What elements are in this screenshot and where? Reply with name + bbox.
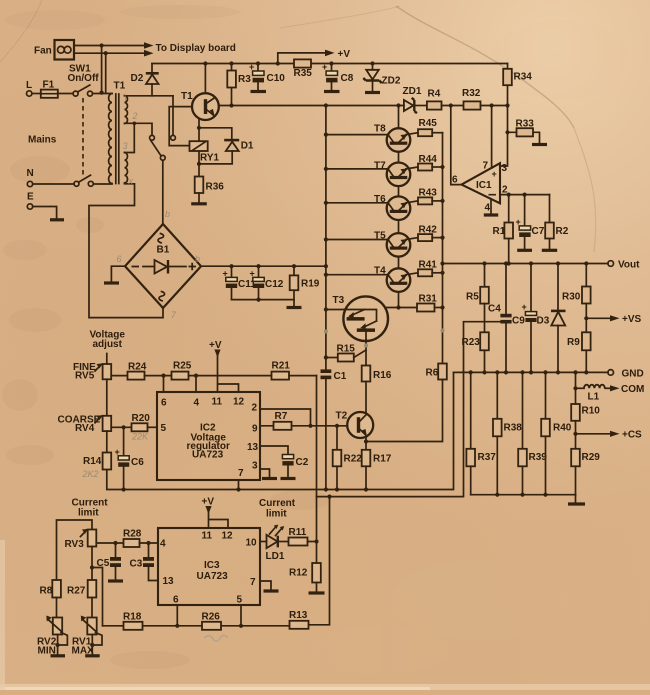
wire IC3 pin5 stub — [239, 605, 243, 628]
wire contact common to bridge — [162, 160, 164, 224]
svg-text:N: N — [27, 168, 34, 179]
wire IC2 pin7 stub — [238, 480, 240, 490]
svg-text:R9: R9 — [567, 337, 580, 348]
svg-text:10: 10 — [246, 538, 258, 549]
svg-text:9: 9 — [252, 424, 258, 435]
svg-text:E: E — [27, 192, 34, 203]
node +CS — [576, 430, 643, 441]
svg-text:+V: +V — [209, 340, 222, 351]
svg-text:4: 4 — [160, 539, 166, 550]
resistor R35 — [294, 59, 313, 79]
wire R21 down branch — [316, 376, 318, 563]
wire transformer bottom to bridge — [89, 184, 163, 318]
svg-text:Vout: Vout — [618, 260, 640, 271]
capacitor C1 — [321, 330, 347, 490]
svg-text:R31: R31 — [419, 294, 438, 305]
resistor R44 — [418, 154, 445, 171]
op-amp IC1 — [452, 106, 508, 214]
resistor R7 on pin9 line — [260, 411, 348, 430]
svg-text:2: 2 — [252, 403, 258, 414]
capacitor C3 — [130, 543, 159, 581]
svg-text:D2: D2 — [131, 73, 144, 84]
svg-text:R35: R35 — [294, 68, 313, 79]
svg-text:R8: R8 — [40, 586, 53, 597]
pot RV4 COARSE — [58, 379, 112, 434]
svg-text:ZD2: ZD2 — [382, 76, 401, 87]
wire T2 emitter — [364, 438, 368, 450]
svg-text:R12: R12 — [289, 568, 308, 579]
svg-text:R10: R10 — [582, 406, 601, 417]
svg-text:+V: +V — [202, 497, 215, 508]
resistor R25 — [172, 361, 272, 380]
svg-text:C9: C9 — [512, 316, 525, 327]
svg-text:C4: C4 — [488, 304, 501, 315]
transformer T1 — [109, 81, 128, 184]
node +VS — [586, 314, 641, 325]
zener ZD1 — [403, 86, 427, 113]
svg-text:22K: 22K — [131, 432, 149, 442]
resistor R18 — [123, 612, 143, 630]
svg-text:C10: C10 — [267, 73, 286, 84]
resistor R2 — [542, 195, 569, 251]
svg-text:R39: R39 — [529, 452, 548, 463]
svg-text:L: L — [26, 80, 32, 91]
dashed link SW1 ganged — [82, 98, 84, 176]
node +V IC3 — [202, 497, 229, 529]
svg-text:R14: R14 — [83, 456, 102, 467]
svg-text:R24: R24 — [128, 362, 147, 373]
resistor R23 — [462, 304, 489, 375]
svg-text:MIN: MIN — [38, 646, 56, 657]
wire bridge output — [201, 264, 328, 268]
wire IC2 pin2 — [260, 409, 313, 428]
wire secondary tap mid — [125, 123, 153, 135]
resistor R4 — [427, 89, 464, 110]
pot RV3 — [57, 520, 97, 580]
svg-text:COM: COM — [621, 384, 644, 395]
transistor T6 — [374, 194, 418, 220]
wire SW1 to transformer — [93, 93, 113, 95]
svg-text:Mains: Mains — [28, 135, 57, 146]
ground IC3 pin7 — [260, 581, 279, 591]
svg-text:11: 11 — [212, 397, 223, 408]
svg-text:R43: R43 — [419, 188, 438, 199]
svg-text:R38: R38 — [504, 423, 523, 434]
svg-text:6: 6 — [161, 398, 167, 409]
capacitor C11 — [223, 266, 257, 299]
svg-text:MAX: MAX — [72, 646, 95, 657]
svg-text:+: + — [322, 62, 327, 72]
svg-text:R30: R30 — [562, 292, 581, 303]
svg-text:T1: T1 — [114, 81, 126, 92]
resistor R38 — [493, 372, 522, 494]
ground R19 — [287, 306, 302, 309]
svg-text:4: 4 — [485, 203, 491, 214]
ground bridge left — [104, 266, 125, 283]
svg-text:12: 12 — [222, 531, 234, 542]
resistor R32 — [462, 88, 510, 110]
svg-text:C5: C5 — [97, 558, 110, 569]
wire secondary tap top — [125, 95, 174, 97]
svg-text:Fan: Fan — [34, 46, 52, 57]
wire E to ground — [33, 207, 57, 219]
IC3 regulator — [158, 528, 260, 606]
svg-text:To Display board: To Display board — [156, 43, 236, 54]
node +V arrow — [278, 49, 351, 64]
svg-text:RV3: RV3 — [65, 539, 85, 550]
resistor R19 — [290, 266, 320, 306]
resistor R33 — [505, 119, 547, 145]
wire T1 base — [169, 107, 193, 146]
transistor T7 — [374, 161, 418, 187]
svg-text:adjust: adjust — [93, 339, 123, 350]
switch SW1 — [58, 64, 99, 97]
IC2 regulator — [157, 392, 260, 480]
wire RV3 to R28 — [96, 541, 123, 545]
svg-text:IC3: IC3 — [204, 560, 220, 571]
resistor R9 — [567, 332, 591, 374]
transistor T4 — [374, 266, 418, 292]
wire base T5 — [324, 237, 389, 241]
svg-text:4: 4 — [194, 398, 200, 409]
svg-text:R11: R11 — [289, 527, 307, 538]
svg-text:limit: limit — [266, 509, 287, 520]
svg-text:F1: F1 — [43, 80, 55, 91]
bridge rectifier B1 — [125, 224, 201, 308]
svg-text:+: + — [249, 62, 254, 72]
capacitor C2 on pin13 — [260, 446, 309, 479]
resistor R1 — [493, 195, 514, 266]
svg-text:b: b — [195, 254, 200, 264]
ground IC1 pin4 — [484, 200, 498, 216]
wire IC2 pin6 stub — [163, 376, 165, 392]
wire RV4 to R20 — [111, 425, 131, 429]
svg-text:R17: R17 — [373, 454, 392, 465]
wire L to F1 — [32, 93, 41, 95]
svg-text:x: x — [128, 176, 134, 186]
svg-text:7: 7 — [250, 577, 256, 588]
svg-text:R32: R32 — [462, 88, 481, 99]
resistor R11 — [289, 527, 319, 546]
resistor R15 — [324, 344, 366, 362]
ground IC2 pin3 — [260, 469, 277, 479]
wire C11 C12 R19 bottoms — [232, 298, 295, 302]
capacitor C7 — [516, 195, 545, 251]
diode D2 — [131, 64, 159, 96]
resistor R17 — [362, 450, 392, 492]
svg-text:13: 13 — [247, 442, 259, 453]
svg-text:T1: T1 — [181, 91, 193, 102]
LED LD1 — [260, 525, 289, 562]
inductor L1 — [573, 384, 644, 403]
resistor R45 — [418, 118, 443, 136]
svg-text:R19: R19 — [301, 279, 320, 290]
svg-text:R7: R7 — [275, 411, 288, 422]
resistor R5 — [466, 264, 489, 304]
svg-text:C6: C6 — [131, 457, 144, 468]
wire base T8 — [324, 133, 389, 137]
svg-text:R22: R22 — [344, 454, 363, 465]
terminal E — [27, 192, 34, 210]
svg-text:+: + — [516, 217, 521, 227]
terminal Vout — [608, 260, 640, 271]
svg-text:7: 7 — [238, 468, 244, 479]
pot RV1 MAX — [72, 616, 103, 657]
resistor R30 — [562, 264, 591, 333]
wire base bus left — [324, 103, 328, 369]
wire T1 collector to top bus — [204, 64, 206, 94]
resistor R24 — [128, 362, 172, 380]
svg-text:R21: R21 — [272, 361, 291, 372]
wire T3 emitter to R16 — [364, 340, 368, 366]
wire return line upper — [107, 372, 454, 491]
wire IC1 pin2 line — [500, 193, 550, 197]
svg-text:GND: GND — [622, 369, 644, 380]
relay coil RY1 — [190, 141, 220, 163]
wire base T4 — [324, 273, 389, 277]
svg-text:R2: R2 — [556, 226, 569, 237]
relay changeover contact — [150, 135, 176, 160]
svg-text:12: 12 — [233, 397, 245, 408]
svg-text:L1: L1 — [588, 392, 600, 403]
svg-text:b: b — [165, 209, 170, 219]
node +V IC2 — [209, 340, 239, 392]
svg-text:+: + — [492, 169, 497, 179]
svg-text:R33: R33 — [516, 119, 535, 130]
wire IC2 pin4 stub — [195, 376, 197, 392]
svg-text:RV4: RV4 — [75, 423, 95, 434]
svg-text:R29: R29 — [582, 452, 601, 463]
wire GND bus — [454, 370, 609, 374]
ground bottom rail — [568, 495, 585, 504]
svg-text:D1: D1 — [241, 141, 254, 152]
svg-text:LD1: LD1 — [266, 551, 285, 562]
wire relay to R36 — [197, 151, 201, 177]
svg-text:R18: R18 — [123, 612, 142, 623]
resistor R43 — [418, 188, 445, 205]
wire bottom rail right — [471, 493, 576, 497]
svg-text:7: 7 — [483, 161, 489, 172]
svg-text:6: 6 — [117, 254, 122, 264]
svg-text:R5: R5 — [466, 292, 479, 303]
capacitor C4 — [488, 264, 512, 375]
svg-text:T4: T4 — [374, 266, 386, 277]
svg-text:3: 3 — [123, 141, 128, 151]
svg-text:R28: R28 — [123, 529, 142, 540]
resistor R21 — [272, 361, 317, 380]
wire Vout bus — [443, 261, 609, 265]
resistor R39 — [518, 372, 547, 494]
resistor R29 — [571, 449, 600, 495]
svg-text:C1: C1 — [334, 371, 347, 382]
svg-text:T2: T2 — [336, 411, 348, 422]
resistor R26 — [202, 612, 222, 630]
wire array right bus — [440, 133, 444, 364]
svg-text:R44: R44 — [419, 154, 438, 165]
svg-text:RY1: RY1 — [200, 153, 220, 164]
resistor R40 — [541, 372, 572, 494]
svg-text:T8: T8 — [374, 124, 386, 135]
resistor R12 — [289, 563, 325, 593]
resistor R22 — [333, 424, 363, 492]
capacitor C6 — [115, 427, 145, 489]
svg-text:IC1: IC1 — [476, 180, 492, 191]
svg-text:T5: T5 — [374, 231, 386, 242]
wire fan to display board lower — [74, 43, 236, 57]
svg-text:2: 2 — [132, 111, 138, 121]
resistor R16 — [362, 366, 392, 413]
svg-text:limit: limit — [78, 508, 99, 519]
svg-text:+: + — [250, 269, 255, 279]
resistor R36 — [195, 177, 225, 194]
svg-text:13: 13 — [163, 576, 175, 587]
svg-text:R27: R27 — [67, 586, 86, 597]
svg-text:R13: R13 — [289, 610, 308, 621]
svg-text:R40: R40 — [553, 423, 572, 434]
svg-text:R20: R20 — [132, 413, 151, 424]
terminal N — [27, 168, 34, 187]
svg-text:+V: +V — [338, 49, 351, 60]
svg-text:R6: R6 — [426, 368, 439, 379]
wire fan tap 1 — [100, 43, 104, 94]
transistor T8 — [374, 124, 418, 152]
svg-text:T7: T7 — [374, 161, 386, 172]
terminal L — [26, 80, 32, 96]
wire fan to display board upper — [74, 42, 153, 49]
svg-text:C7: C7 — [532, 226, 545, 237]
svg-text:C12: C12 — [265, 279, 284, 290]
wire base T7 — [324, 167, 389, 171]
resistor R42 — [418, 225, 445, 242]
svg-text:+CS: +CS — [622, 430, 642, 441]
svg-text:R42: R42 — [419, 225, 438, 236]
svg-text:5: 5 — [161, 423, 167, 434]
ground E — [50, 218, 64, 221]
svg-text:R26: R26 — [202, 612, 221, 623]
resistor R3 — [227, 64, 251, 108]
svg-text:+: + — [115, 447, 120, 457]
transistor T5 — [374, 231, 418, 257]
svg-text:On/Off: On/Off — [68, 73, 100, 84]
terminal GND — [608, 369, 644, 380]
svg-text:R16: R16 — [373, 370, 392, 381]
svg-text:R37: R37 — [478, 452, 497, 463]
wire base T6 — [324, 201, 389, 205]
top supply bus — [152, 61, 508, 65]
svg-text:T3: T3 — [333, 295, 345, 306]
capacitor C10 — [249, 62, 285, 92]
svg-text:3: 3 — [252, 461, 258, 472]
svg-text:R4: R4 — [428, 89, 441, 100]
svg-text:R41: R41 — [419, 260, 438, 271]
resistor R31 — [417, 294, 443, 312]
transistor T3 — [324, 295, 388, 341]
capacitor C9 — [512, 264, 537, 375]
svg-text:6: 6 — [173, 595, 179, 606]
zener ZD2 — [363, 64, 401, 93]
svg-text:+: + — [223, 269, 228, 279]
wire tap to relay contact right — [172, 96, 174, 135]
pot RV5 FINE — [73, 354, 111, 382]
resistor R28 — [123, 529, 158, 548]
diode D1 — [199, 140, 254, 164]
svg-text:T6: T6 — [374, 194, 386, 205]
pencil marks — [117, 93, 201, 320]
capacitor C5 — [97, 543, 124, 581]
resistor R10 — [571, 372, 600, 448]
svg-text:2K2: 2K2 — [82, 469, 99, 479]
svg-text:UA723: UA723 — [197, 571, 229, 582]
svg-text:D3: D3 — [537, 316, 550, 327]
svg-text:R15: R15 — [337, 344, 356, 355]
wire IC3 pin6 stub — [175, 605, 179, 628]
wire bottom row — [103, 497, 330, 626]
wire tap link — [125, 123, 135, 152]
resistor R20 — [131, 413, 157, 442]
svg-text:ZD1: ZD1 — [403, 86, 422, 97]
switch N pole — [33, 175, 112, 186]
svg-text:R1: R1 — [493, 226, 506, 237]
transistor T1 — [181, 91, 219, 120]
resistor R41 — [418, 260, 445, 277]
wire T3 collector line — [385, 305, 417, 309]
svg-text:R34: R34 — [514, 72, 533, 83]
ground R36 — [191, 193, 207, 204]
svg-text:11: 11 — [202, 531, 213, 542]
svg-text:R25: R25 — [173, 361, 192, 372]
resistor R34 — [503, 64, 532, 106]
pot RV2 MIN — [37, 616, 67, 657]
fan box — [34, 40, 74, 60]
transistor T2 — [336, 411, 374, 439]
wire T1 emitter line right — [219, 105, 404, 107]
svg-text:3: 3 — [502, 163, 508, 174]
svg-text:C3: C3 — [130, 559, 143, 570]
capacitor C12 — [250, 266, 284, 299]
wire fan tap 2 — [104, 51, 108, 92]
wire return line lower — [317, 322, 507, 499]
svg-text:R36: R36 — [206, 182, 225, 193]
wire collector chain — [396, 103, 400, 307]
svg-text:R45: R45 — [419, 118, 438, 129]
svg-text:+: + — [522, 302, 527, 312]
wire RV3 wiper branch — [92, 568, 103, 626]
svg-text:C2: C2 — [296, 457, 309, 468]
wire RV5 to R24 line — [111, 375, 127, 377]
svg-text:B1: B1 — [157, 245, 170, 256]
creases — [396, 6, 574, 128]
resistor R13 — [289, 610, 309, 629]
svg-text:Current: Current — [259, 498, 296, 509]
svg-text:UA723: UA723 — [192, 450, 224, 461]
diode D3 — [537, 264, 566, 375]
wire T1 emitter down to relay — [198, 118, 200, 141]
svg-text:R3: R3 — [238, 74, 251, 85]
svg-text:RV5: RV5 — [75, 371, 95, 382]
resistor R14 — [82, 431, 112, 479]
resistor R27 — [67, 580, 96, 618]
capacitor C8 — [322, 62, 354, 92]
resistor R8 — [40, 580, 61, 618]
svg-text:5: 5 — [237, 595, 243, 606]
resistor R6 — [366, 364, 447, 442]
wire IC1 pin6 — [451, 106, 462, 185]
fuse F1 — [41, 80, 58, 98]
node T1/relay top junction — [197, 126, 232, 139]
svg-text:+VS: +VS — [622, 314, 642, 325]
resistor R37 — [466, 372, 496, 494]
svg-text:C8: C8 — [341, 73, 354, 84]
